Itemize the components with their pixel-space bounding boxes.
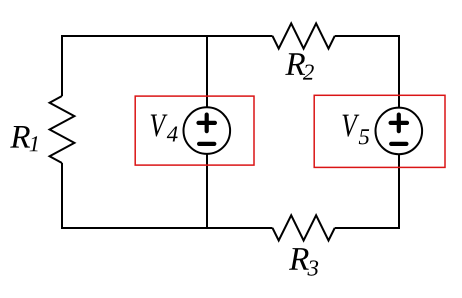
wire: left branch upper lead (top-left corner down to R1) [61,35,63,96]
wire: right branch upper lead (top-right corner down to V5) [398,35,400,109]
label R1 [10,126,37,151]
label V5 [342,115,369,145]
wire: top rail left segment (top-left corner to R2 left lead, through node at middle branch) [62,35,273,37]
label V4 [151,114,178,141]
wire: middle branch lower lead (V4 down to bottom rail node) [206,153,208,228]
voltage source V5 (circle with + and - marks) [376,108,423,155]
voltage source V4 (circle with + and - marks) [184,107,231,154]
annotation box around V5 (red highlight rectangle) [314,95,445,167]
wire: middle branch upper lead (top rail node down to V4) [206,36,208,109]
resistor R1 [50,96,75,163]
wire: right branch lower lead (V5 down to bottom-right corner) [398,153,400,229]
resistor R2 [273,23,335,48]
annotation box around V4 (red highlight rectangle) [135,96,254,165]
wire: top rail right segment (R2 right lead to top-right corner) [335,35,399,37]
resistor R3 [273,215,335,240]
label R3 [289,248,318,276]
wire: bottom rail left segment (bottom-left corner to R3 left lead, through node at middle branch) [62,227,273,229]
wire: left branch lower lead (R1 down to bottom-left corner) [61,163,63,229]
label R2 [285,53,313,79]
wire: bottom rail right segment (R3 right lead to bottom-right corner) [335,227,399,229]
